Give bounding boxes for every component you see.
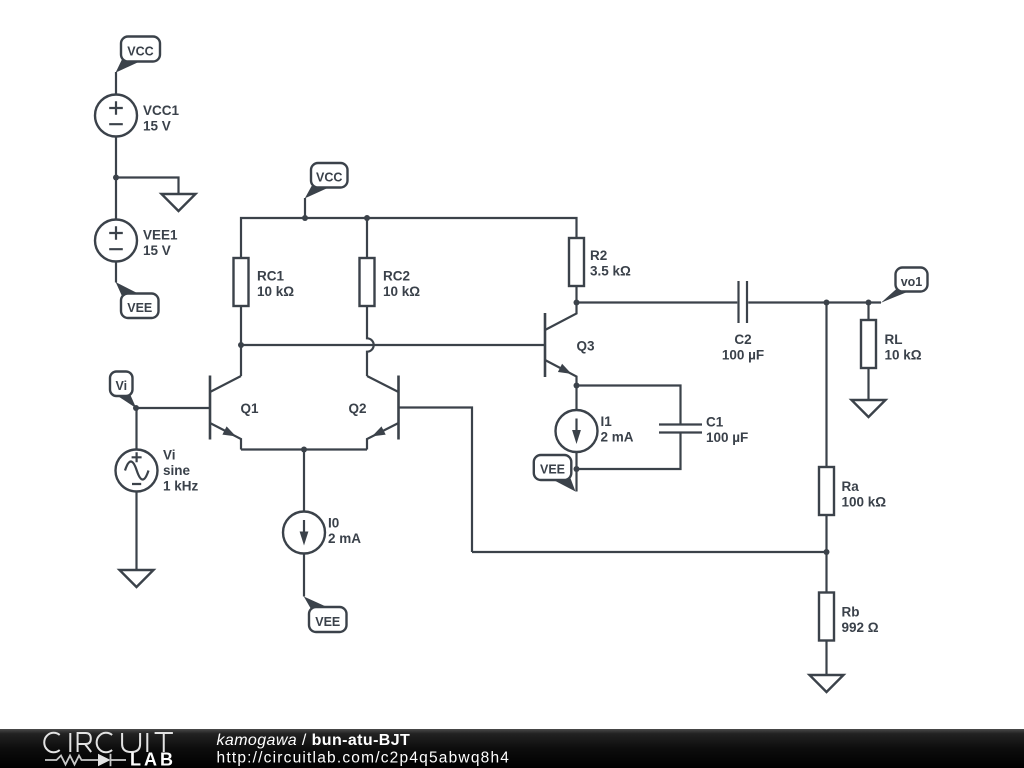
net flag Vi (110, 372, 136, 409)
svg-text:http://circuitlab.com/c2p4q5ab: http://circuitlab.com/c2p4q5abwq8h4 (217, 750, 511, 767)
ground (below Vi) (120, 570, 154, 587)
wire VEE1 to VEE flag (115, 262, 117, 283)
svg-text:RL: RL (885, 332, 903, 347)
value label RC1 10 kΩ (257, 268, 294, 299)
svg-text:RC1: RC1 (257, 268, 284, 283)
wire RC2 bottom with hop over base rail (367, 306, 374, 376)
value label C1 100 µF (706, 415, 748, 446)
ground (below Rb) (810, 675, 844, 692)
wire RL bottom (867, 368, 869, 400)
svg-text:sine: sine (163, 463, 191, 478)
svg-text:VCC: VCC (127, 44, 153, 58)
wire emitter node to C1 top (577, 386, 681, 425)
wire VCC flag to VCC1 (115, 72, 117, 95)
value label Vi sine 1 kHz (163, 448, 199, 494)
svg-text:1 kHz: 1 kHz (163, 479, 199, 494)
wire Q1 base (136, 407, 210, 409)
svg-text:RC2: RC2 (383, 268, 410, 283)
value label I1 2 mA (601, 414, 634, 445)
wire top rail (241, 218, 577, 258)
svg-text:Vi: Vi (163, 448, 176, 463)
resistor Rb (819, 593, 834, 641)
wire Ra bottom to node (825, 515, 827, 593)
wire RC1 bottom to Q1 collector (240, 306, 242, 376)
value label VEE1 15 V (143, 227, 178, 257)
svg-text:VEE: VEE (540, 463, 565, 477)
svg-text:992 Ω: 992 Ω (842, 620, 879, 635)
node dot RC2 tap (364, 215, 370, 221)
capacitor C2 (739, 281, 748, 323)
svg-text:Q2: Q2 (349, 401, 367, 416)
node dot Ra tap (824, 300, 830, 306)
svg-text:10 kΩ: 10 kΩ (257, 284, 294, 299)
node dot RL tap (866, 300, 872, 306)
svg-text:VEE1: VEE1 (143, 227, 178, 242)
svg-text:R2: R2 (590, 248, 607, 263)
resistor R2 (569, 238, 584, 286)
wire VCC1 to junction (115, 137, 117, 220)
node dot emitters (301, 447, 307, 453)
footer bar (0, 729, 1024, 768)
svg-text:10 kΩ: 10 kΩ (383, 284, 420, 299)
voltage source Vi (sine) (116, 450, 158, 492)
logo resistor-diode line (45, 754, 126, 766)
svg-text:kamogawa / bun-atu-BJT: kamogawa / bun-atu-BJT (217, 732, 411, 749)
current source I0 (283, 512, 325, 554)
wire I1 bottom to VEE flag tip (575, 452, 577, 492)
wire VCC flag stub (304, 198, 306, 218)
value label Rb 992 Ω (842, 604, 879, 635)
wire Ra top (825, 303, 827, 468)
value label RC2 10 kΩ (383, 268, 420, 299)
voltage source VCC1 (95, 95, 137, 137)
transistor Q3 (545, 303, 577, 386)
svg-text:C1: C1 (706, 415, 724, 430)
wire RL top (867, 303, 869, 321)
net flag VCC (mid) (305, 163, 348, 198)
wire emitters to I0 (303, 450, 305, 512)
node dot I1/C1 (574, 466, 580, 472)
svg-text:VCC1: VCC1 (143, 103, 180, 118)
node dot Ra/Rb (824, 549, 830, 555)
node dot VCC tap (302, 215, 308, 221)
resistor RC1 (234, 258, 249, 306)
svg-text:Q1: Q1 (241, 401, 260, 416)
wire emitter node to I1 (575, 386, 577, 411)
net flag vo1 (881, 268, 928, 303)
wire Q3 emitter node (574, 383, 580, 389)
resistor Ra (819, 467, 834, 515)
wire Vi tap to source (135, 408, 137, 450)
transistor Q2 (mirrored) (367, 376, 399, 450)
wire C1 bottom to I1 bottom node (577, 433, 681, 470)
value label I0 2 mA (328, 515, 361, 546)
net flag VEE (below VEE1) (116, 282, 159, 318)
svg-text:Vi: Vi (115, 379, 127, 393)
wire I0 to VEE flag (303, 554, 305, 597)
svg-text:I1: I1 (601, 414, 613, 429)
wire RC2 top (366, 218, 368, 258)
svg-text:Rb: Rb (842, 604, 860, 619)
node dot collector/C2 (574, 300, 580, 306)
wire Q2 base to right column (399, 408, 473, 553)
svg-text:Ra: Ra (842, 479, 860, 494)
wire emitter rail (241, 448, 367, 450)
node dot Vi tap (133, 405, 139, 411)
wire junction to ground (116, 178, 179, 195)
logo CIRCUIT wordmark (44, 733, 173, 753)
svg-text:VEE: VEE (127, 301, 152, 315)
svg-text:vo1: vo1 (901, 275, 923, 289)
svg-text:2 mA: 2 mA (601, 429, 634, 444)
net flag VEE (near I1) (534, 455, 576, 492)
node dot RC1/base rail (238, 342, 244, 348)
svg-text:VEE: VEE (315, 615, 340, 629)
svg-text:3.5 kΩ: 3.5 kΩ (590, 263, 631, 278)
svg-text:Q3: Q3 (577, 339, 596, 354)
wire Rb bottom (825, 641, 827, 676)
svg-text:15 V: 15 V (143, 118, 171, 133)
svg-text:10 kΩ: 10 kΩ (885, 347, 922, 362)
svg-text:100 kΩ: 100 kΩ (842, 494, 887, 509)
transistor Q1 (210, 376, 241, 450)
wire feedback rail (472, 551, 827, 553)
svg-text:100 µF: 100 µF (706, 430, 748, 445)
net flag VCC (top left) (116, 37, 160, 73)
value label RL 10 kΩ (885, 332, 922, 363)
wire Vi source to ground (135, 492, 137, 571)
node junction dot (VCC1/VEE1/ground) (113, 175, 119, 181)
svg-text:I0: I0 (328, 515, 339, 530)
value label Ra 100 kΩ (842, 479, 887, 510)
value label C2 100 µF (722, 332, 764, 363)
svg-text:LAB: LAB (130, 750, 176, 768)
svg-text:15 V: 15 V (143, 243, 171, 258)
svg-text:VCC: VCC (316, 171, 342, 185)
wire R2 bottom to collector node (575, 286, 577, 303)
svg-text:C2: C2 (734, 332, 751, 347)
net flag VEE (below I0) (304, 597, 347, 633)
current source I1 (556, 410, 598, 452)
resistor RL (861, 320, 876, 368)
wire base rail to Q3 (241, 344, 545, 346)
resistor RC2 (360, 258, 375, 306)
capacitor C1 (659, 425, 702, 433)
ground (top left) (162, 194, 196, 211)
ground (below RL) (852, 400, 886, 417)
wire C2 to output node (748, 301, 881, 303)
svg-text:100 µF: 100 µF (722, 347, 764, 362)
wire collector node to C2 (577, 301, 738, 303)
value label VCC1 15 V (143, 103, 180, 134)
value label R2 3.5 kΩ (590, 248, 631, 279)
svg-text:2 mA: 2 mA (328, 531, 361, 546)
voltage source VEE1 (95, 220, 137, 262)
